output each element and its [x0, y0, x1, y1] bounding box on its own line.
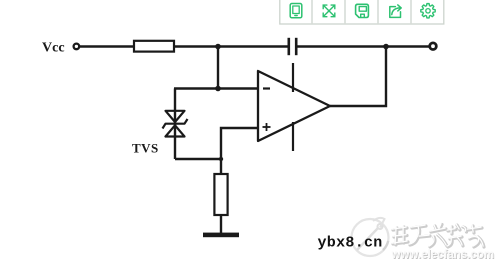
toolbar icon: settings gear — [421, 4, 435, 18]
wire inverting node to op-amp minus input — [174, 87, 258, 89]
toolbar icon: export/share — [390, 5, 401, 18]
svg-text:www.elecfans.com: www.elecfans.com — [391, 249, 494, 261]
toolbar panel — [280, 0, 444, 24]
op-amp U1 positive supply pin — [292, 63, 294, 92]
wire down to TVS diode — [174, 89, 176, 160]
wire node D up to non-inverting input — [221, 128, 258, 174]
svg-text:TVS: TVS — [132, 141, 159, 156]
wire R2 to ground — [220, 215, 222, 233]
capacitor C1 (feedback) — [289, 38, 296, 55]
node D junction dot — [219, 157, 223, 161]
watermark elecfans chinese calligraphy highlight — [392, 224, 483, 247]
wire R1 to node A — [174, 45, 289, 47]
wire Vcc terminal to R1 — [80, 45, 134, 47]
op-amp U1 plus sign — [263, 123, 271, 131]
node output terminal — [430, 43, 437, 50]
ground — [203, 233, 239, 238]
TVS diode D1 (bidirectional) — [163, 111, 188, 137]
wire op-amp output to node B — [330, 47, 386, 107]
wire C1 to node B — [296, 45, 429, 47]
watermark ybx8.cn logo circle — [352, 218, 389, 256]
op-amp U1 negative supply pin — [292, 122, 294, 151]
toolbar icon: fullscreen expand — [323, 5, 335, 17]
op-amp U1 — [258, 71, 330, 141]
toolbar icon: mobile preview — [290, 4, 302, 18]
toolbar icon: save (floppy disk) — [356, 4, 369, 17]
node B junction dot — [383, 44, 389, 50]
svg-text:ybx8.cn: ybx8.cn — [318, 235, 383, 252]
resistor R2 (to ground, vertical) — [214, 174, 227, 215]
svg-text:Vcc: Vcc — [42, 41, 65, 56]
node C junction dot (inverting input node) — [215, 86, 221, 92]
watermark elecfans chinese calligraphy — [393, 225, 484, 248]
wire node A down to inverting node — [217, 47, 219, 89]
node Vcc input terminal — [74, 44, 80, 50]
wire TVS to node D — [175, 158, 221, 160]
node A junction dot — [215, 44, 221, 50]
resistor R1 (series, horizontal) — [134, 41, 174, 52]
op-amp U1 minus sign — [263, 87, 270, 89]
